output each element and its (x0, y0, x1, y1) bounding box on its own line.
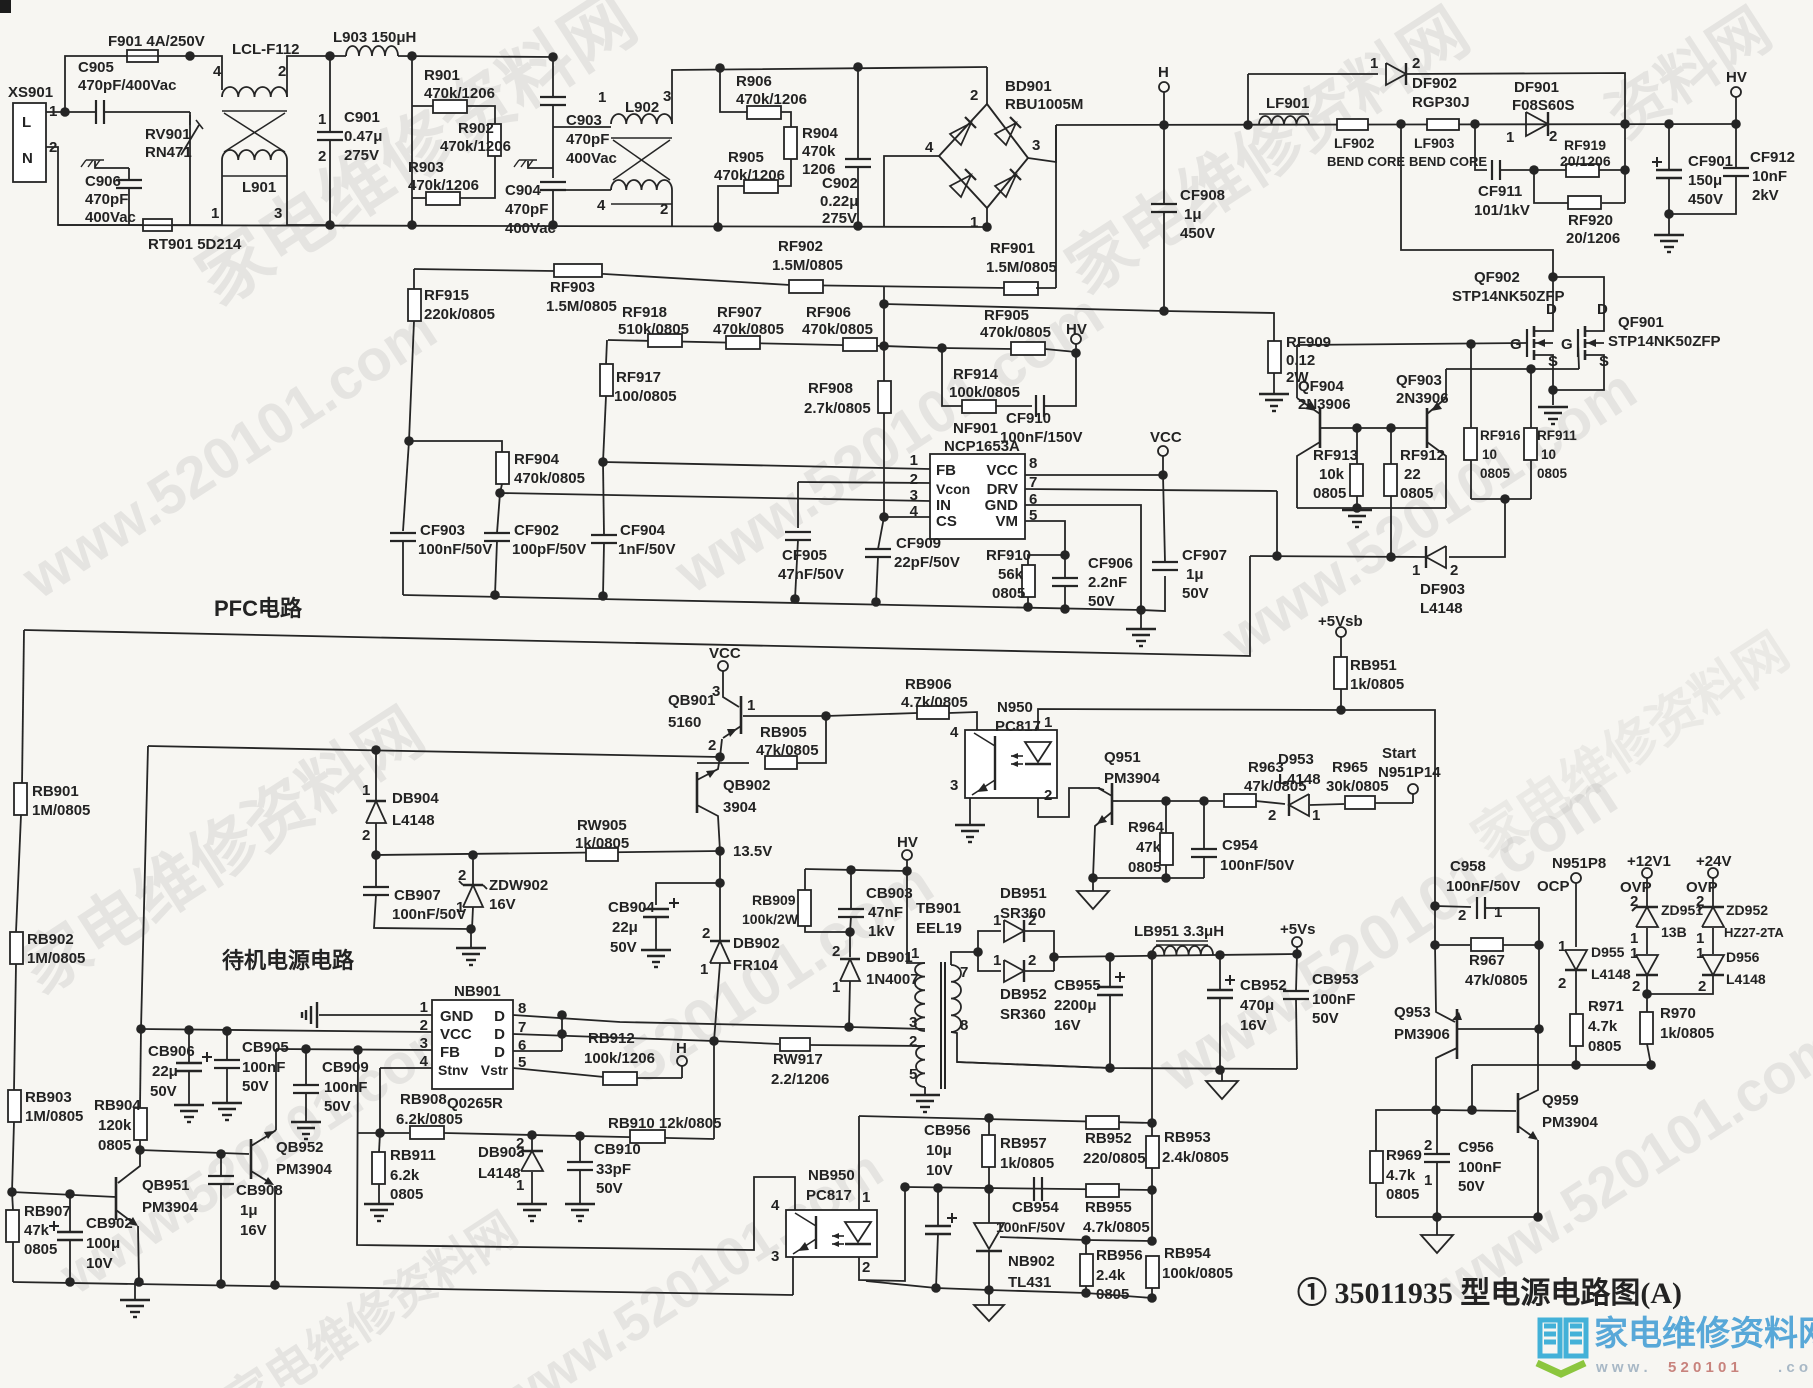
wire RB904 top (140, 1029, 141, 1108)
wire CF909 top (878, 517, 884, 549)
svg-text:NF901: NF901 (953, 420, 998, 437)
label DB903 v (478, 1165, 521, 1182)
svg-text:CB955: CB955 (1054, 977, 1101, 994)
svg-text:RT901 5D214: RT901 5D214 (148, 236, 242, 253)
wire DB902 bottom (714, 963, 720, 1041)
label H label top (1158, 64, 1169, 81)
label DB951 pin1 (993, 912, 1001, 929)
svg-text:RF916: RF916 (1480, 428, 1521, 443)
svg-text:1: 1 (911, 945, 919, 962)
label NB901 pin6 (518, 1037, 526, 1054)
junction n ret 1220 (1215, 1065, 1225, 1075)
label ZDW902 pin2 (458, 867, 466, 884)
wire RF917 bottom (603, 396, 606, 462)
svg-text:22μ: 22μ (612, 919, 638, 936)
label N950 pin1 (1044, 714, 1052, 731)
svg-text:RB954: RB954 (1164, 1245, 1211, 1262)
label VCC pfc label (1150, 429, 1182, 446)
svg-text:C902: C902 (822, 175, 858, 192)
resistor RF908 (878, 381, 891, 413)
svg-text:RF910: RF910 (986, 547, 1031, 564)
svg-text:NCP1653A: NCP1653A (944, 438, 1020, 455)
label CF906 v3 (1088, 593, 1115, 610)
svg-text:2kV: 2kV (1752, 187, 1779, 204)
svg-text:50V: 50V (610, 939, 637, 956)
label TB901 pin5 (909, 1066, 917, 1083)
junction n zdw gnd (466, 924, 476, 934)
svg-text:D: D (494, 1026, 505, 1043)
svg-text:OCP: OCP (1537, 878, 1570, 895)
label RB907 v2 (24, 1222, 50, 1239)
svg-text:RF911: RF911 (1537, 428, 1577, 443)
svg-text:20/1206: 20/1206 (1560, 153, 1611, 169)
wire FB pin row (276, 1049, 432, 1050)
label R905 v (714, 167, 785, 184)
transistor QB901 (720, 696, 741, 757)
label title (1297, 1277, 1682, 1310)
terminal Start term (1408, 784, 1418, 794)
svg-text:470pF: 470pF (566, 131, 609, 148)
wire TB901 pin8 lead (951, 1032, 1110, 1068)
svg-text:C956: C956 (1458, 1139, 1494, 1156)
junction n 748 DB904 (371, 745, 381, 755)
svg-text:QF902: QF902 (1474, 269, 1520, 286)
terminal HV mid (902, 850, 912, 860)
resistor RF913 (1350, 464, 1363, 496)
svg-text:0805: 0805 (1400, 485, 1433, 502)
logo book icon (1537, 1320, 1586, 1374)
label RF906 v (802, 321, 873, 338)
svg-text:LF901: LF901 (1266, 95, 1309, 112)
label DB951 (1000, 885, 1047, 902)
resistor R901 (433, 100, 467, 113)
diode DB901 (840, 959, 860, 981)
capacitor CB902 (49, 1221, 83, 1240)
label RB912 v (584, 1050, 655, 1067)
wire left column 4 (12, 1122, 14, 1192)
label RB951 v (1350, 676, 1404, 693)
junction n sec out R (1049, 952, 1059, 962)
connector XS901 (13, 103, 46, 182)
label R971 (1588, 998, 1624, 1015)
wire CB905 bot (226, 1068, 228, 1103)
svg-text:Q951: Q951 (1104, 749, 1141, 766)
resistor RB909 (798, 890, 811, 926)
svg-text:GND: GND (440, 1008, 474, 1025)
label RF912 (1400, 447, 1445, 464)
svg-text:① 35011935 型电源电路图(A): ① 35011935 型电源电路图(A) (1297, 1277, 1682, 1310)
label RF912 v2 (1404, 466, 1421, 483)
label R903 (408, 159, 444, 176)
svg-text:4.7k: 4.7k (1588, 1018, 1618, 1035)
junction n e row 1166 (1161, 873, 1171, 883)
label RB901 v (32, 802, 90, 819)
label RF918 v (618, 321, 689, 338)
svg-text:C901: C901 (344, 109, 380, 126)
label RF902 v (772, 257, 843, 274)
svg-text:1: 1 (970, 214, 978, 231)
resistor RF901 (1004, 282, 1038, 295)
svg-text:CF903: CF903 (420, 522, 465, 539)
svg-text:120k: 120k (98, 1117, 132, 1134)
svg-text:RBU1005M: RBU1005M (1005, 96, 1083, 113)
label CB908 (236, 1182, 283, 1199)
label CF907 v2 (1186, 566, 1204, 583)
wire CF911 right (1500, 169, 1566, 171)
label CF903 (420, 522, 465, 539)
label QF901 type (1608, 333, 1721, 350)
label D955 (1591, 944, 1625, 960)
junction n drain (1548, 272, 1558, 282)
resistor RB955 (1086, 1184, 1119, 1197)
label RF901 v (986, 259, 1057, 276)
wire vert x1625 (1624, 124, 1626, 203)
svg-text:RN471: RN471 (145, 144, 192, 161)
svg-text:470k/1206: 470k/1206 (424, 85, 495, 102)
svg-text:1: 1 (1412, 562, 1420, 579)
label CB910 v3 (596, 1180, 623, 1197)
label NB901 D7 (494, 1026, 505, 1043)
label DF901 pin2 (1549, 128, 1557, 145)
wire C954 bottom (1203, 857, 1205, 878)
diode DB952 (1004, 960, 1024, 982)
svg-text:3: 3 (771, 1248, 779, 1265)
transistor QB952 (251, 1130, 276, 1285)
label QF903 type (1396, 390, 1449, 407)
wire feedback long wire (24, 556, 1250, 656)
label RF909 v2 (1286, 352, 1315, 369)
junction n x412 rail (407, 220, 417, 230)
label DB951 pin2 (1028, 912, 1036, 929)
label RB909 (752, 892, 796, 908)
label C906 value3 (85, 209, 136, 226)
svg-text:470k/1206: 470k/1206 (440, 138, 511, 155)
wire row RF918 (608, 340, 942, 348)
wire Q953 emitter (1435, 945, 1455, 1022)
svg-text:D956: D956 (1726, 949, 1760, 965)
svg-text:150μ: 150μ (1688, 172, 1722, 189)
label L902 pin4 (597, 197, 606, 214)
svg-text:R903: R903 (408, 159, 444, 176)
wire XS901 pin1 to C905 (46, 111, 95, 113)
label CB909 v3 (324, 1098, 351, 1115)
label D956 pin1 (1696, 945, 1704, 962)
wire CF901 top (1668, 124, 1670, 170)
svg-text:QF904: QF904 (1298, 378, 1345, 395)
wire base row QB952 (140, 1150, 249, 1154)
svg-text:1M/0805: 1M/0805 (32, 802, 90, 819)
label NB901 VCC (440, 1026, 472, 1043)
svg-text:RF907: RF907 (717, 304, 762, 321)
capacitor CB907 (363, 887, 389, 895)
svg-text:SR360: SR360 (1000, 1006, 1046, 1023)
svg-text:16V: 16V (240, 1222, 267, 1239)
capacitor C904 (540, 182, 566, 190)
resistor R969 (1370, 1151, 1383, 1183)
label RV901 type (145, 144, 192, 161)
wire VCC pin row (141, 1029, 432, 1032)
inductor L902 top winding (611, 114, 672, 124)
wire left column 5 (12, 1192, 13, 1210)
junction n base 1391 (1386, 423, 1396, 433)
resistor RB952 (1086, 1116, 1119, 1129)
resistor RB908 (410, 1126, 444, 1139)
resistor RB903 (8, 1090, 21, 1122)
label +12V1 label (1627, 853, 1671, 870)
bridge diode D4 (995, 169, 1021, 197)
resistor RB904 (134, 1108, 147, 1140)
svg-text:LB951 3.3μH: LB951 3.3μH (1134, 923, 1224, 940)
wire RB909 bot (805, 926, 850, 932)
label QB901 pin2 (708, 737, 716, 754)
transistor QB951 (116, 1150, 140, 1282)
terminal HV right (1731, 87, 1741, 97)
wire DRV row (1025, 489, 1277, 491)
junction n out 1297 (1292, 949, 1302, 959)
svg-text:2: 2 (1424, 1137, 1432, 1154)
junction n rb904 b (135, 1145, 145, 1155)
wire N950 pin1 up (1038, 709, 1341, 730)
label RF905 v (980, 324, 1051, 341)
svg-text:RF919: RF919 (1564, 137, 1606, 153)
label CB908 v3 (240, 1222, 267, 1239)
svg-text:6.2k: 6.2k (390, 1167, 420, 1184)
junction n stnv (375, 1128, 385, 1138)
label CB956 v2 (926, 1142, 952, 1159)
label NF901 CS (936, 513, 957, 530)
wire CB902 bot (69, 1240, 71, 1282)
svg-text:4: 4 (771, 1197, 780, 1214)
label QF902 D (1546, 301, 1557, 318)
capacitor C954 (1191, 849, 1217, 857)
wire RF915 top (413, 269, 415, 289)
svg-text:R901: R901 (424, 67, 460, 84)
wire CB952 top (1219, 955, 1221, 990)
label C901 v3 (344, 147, 379, 164)
wire C958 right (1485, 908, 1539, 945)
label N951P8 label (1552, 855, 1606, 872)
svg-text:2N3906: 2N3906 (1396, 390, 1449, 407)
wire left col CF903 (403, 441, 409, 531)
wire CB903 bot (850, 917, 851, 932)
wire row D (866, 1281, 1152, 1298)
label CB955 v2 (1054, 997, 1097, 1014)
junction n e row 1093 (1088, 873, 1098, 883)
wire R967 right (1503, 944, 1539, 946)
label RB911 v2 (390, 1167, 420, 1184)
junction n left base (7, 1187, 17, 1197)
junction n tie 8 (557, 1010, 567, 1020)
svg-text:101/1kV: 101/1kV (1474, 202, 1530, 219)
svg-text:4: 4 (597, 197, 606, 214)
label RB954 (1164, 1245, 1211, 1262)
wire DF903 left row (1250, 556, 1426, 557)
label logo name (1594, 1315, 1813, 1353)
junction n q953 base (1534, 1024, 1544, 1034)
label Q951 type (1104, 770, 1161, 787)
wire RF901 right (1036, 287, 1056, 289)
label C956 v3 (1458, 1178, 1485, 1195)
svg-text:4: 4 (925, 139, 934, 156)
wire RF910 top lead (1028, 555, 1065, 565)
wire Q959 base row (1436, 1110, 1516, 1111)
junction n rail 795 (790, 594, 800, 604)
svg-text:100nF: 100nF (324, 1079, 367, 1096)
label NB901 FB (440, 1044, 460, 1061)
svg-text:L: L (22, 114, 31, 131)
zener ZDW902 (459, 881, 487, 907)
wire C901 top (329, 56, 331, 132)
ground gnd N950 (955, 825, 985, 842)
wire RW917 right (810, 1045, 925, 1046)
label CB906 (148, 1043, 195, 1060)
wire NB950 pin2 path (859, 1187, 905, 1281)
svg-text:1: 1 (910, 452, 918, 469)
svg-text:5160: 5160 (668, 714, 701, 731)
inductor L901 cross lines (224, 113, 285, 152)
wire row 855 (376, 851, 720, 855)
svg-text:CS: CS (936, 513, 957, 530)
label DB903 pin1 (516, 1177, 524, 1194)
wire CS vertical (883, 286, 885, 517)
label C956 (1458, 1139, 1494, 1156)
label R904 (802, 125, 839, 142)
svg-text:F08S60S: F08S60S (1512, 97, 1575, 114)
wire R965 right (1375, 802, 1413, 804)
label CF904 (620, 522, 666, 539)
capacitor C906 (116, 180, 142, 188)
label TB901 pin1 (911, 945, 919, 962)
junction n r967 R (1534, 940, 1544, 950)
diode DF902 (1386, 63, 1406, 85)
junction C901 top node (325, 51, 335, 61)
svg-text:+12V1: +12V1 (1627, 853, 1671, 870)
label pin L (22, 114, 31, 131)
svg-text:1: 1 (456, 899, 464, 916)
svg-text:50V: 50V (1312, 1010, 1339, 1027)
ground gnd QF902 (1538, 407, 1568, 424)
label QB902 type (723, 799, 757, 816)
label R965 (1332, 759, 1368, 776)
junction n CS (879, 512, 889, 522)
wire VCC stub (1162, 456, 1164, 475)
svg-text:1.5M/0805: 1.5M/0805 (772, 257, 843, 274)
svg-text:RGP30J: RGP30J (1412, 94, 1470, 111)
label R963 v (1244, 778, 1307, 795)
label CF906 v2 (1088, 574, 1127, 591)
label RF919 (1564, 137, 1606, 153)
label R970 (1660, 1005, 1696, 1022)
svg-text:0805: 0805 (1480, 466, 1511, 481)
wire N950 pin2 out (1038, 788, 1100, 817)
svg-text:0805: 0805 (992, 585, 1025, 602)
resistor RB910 (630, 1130, 665, 1143)
wire CF902 top (497, 493, 500, 533)
svg-text:NB901: NB901 (454, 983, 501, 1000)
svg-text:10: 10 (1482, 447, 1497, 462)
label RF904 v (514, 470, 585, 487)
svg-text:RB952: RB952 (1085, 1130, 1132, 1147)
label CB907 (394, 887, 441, 904)
svg-text:1μ: 1μ (1184, 206, 1202, 223)
label NF901 pin4 (910, 503, 919, 520)
svg-text:470k/1206: 470k/1206 (714, 167, 785, 184)
svg-text:RV901: RV901 (145, 126, 191, 143)
svg-text:2: 2 (1698, 978, 1706, 995)
label CB952 (1240, 977, 1287, 994)
label LF903 (1414, 135, 1455, 151)
wire HV stub (1075, 344, 1077, 353)
svg-text:1M/0805: 1M/0805 (27, 950, 85, 967)
wire CF906 bottom (1064, 586, 1066, 609)
junction n main 1401 (1396, 119, 1406, 129)
wire RB956 top (1085, 1240, 1087, 1254)
ground gnd Q959 (1421, 1235, 1453, 1253)
label DF903 pin2 (1450, 562, 1458, 579)
svg-text:GND: GND (985, 497, 1019, 514)
label DF902 pin1 (1370, 55, 1378, 72)
wire row 748 (148, 746, 720, 757)
svg-text:L901: L901 (242, 179, 276, 196)
resistor R965 (1345, 796, 1375, 809)
svg-text:NB902: NB902 (1008, 1253, 1055, 1270)
label TB901 pin7 (960, 964, 968, 981)
label BD901 type (1005, 96, 1083, 113)
capacitor CF908 (1151, 204, 1177, 212)
junction n VM (1060, 550, 1070, 560)
wire CF908 top (1163, 125, 1165, 204)
wire RB904 bottom (139, 1140, 141, 1150)
junction n gate RF916 (1466, 339, 1476, 349)
resistor R967 (1471, 938, 1503, 951)
capacitor CB956 (925, 1213, 957, 1234)
wire AC bottom rail (58, 225, 987, 227)
wire CF908 bottom (1163, 212, 1165, 311)
junction n CF908 bottom (1159, 306, 1169, 316)
svg-text:Vcon: Vcon (936, 481, 970, 497)
label NB901 pin2 (420, 1017, 428, 1034)
label C956 pin1 (1424, 1172, 1432, 1189)
wire main H line (1056, 124, 1736, 125)
svg-text:3: 3 (950, 777, 958, 794)
inductor L901 bottom winding (222, 150, 287, 160)
label CF905 v (778, 566, 844, 583)
wire Stnv row (380, 1067, 432, 1069)
ground gnd return (1206, 1081, 1238, 1099)
label C902 (822, 175, 858, 192)
junction n row 580 (575, 1131, 585, 1141)
svg-text:470μ: 470μ (1240, 997, 1274, 1014)
svg-text:G: G (1561, 336, 1573, 353)
wire R906 right (781, 112, 791, 127)
label QB901 type (668, 714, 701, 731)
label QF902 S (1548, 353, 1558, 370)
label RF906 (806, 304, 851, 321)
wire D955 bottom (1575, 971, 1577, 1014)
wire C956 top (1436, 1110, 1438, 1154)
label CF906 (1088, 555, 1133, 572)
svg-text:100nF: 100nF (242, 1059, 285, 1076)
ground gnd CB906 (174, 1105, 204, 1122)
svg-text:2: 2 (1630, 893, 1638, 910)
wire QF902 gate row (1297, 343, 1527, 345)
label C904 v2 (505, 201, 548, 218)
svg-text:C904: C904 (505, 182, 542, 199)
resistor RB905 (765, 756, 797, 769)
svg-text:FR104: FR104 (733, 957, 779, 974)
svg-text:RB957: RB957 (1000, 1135, 1047, 1152)
label RB957 (1000, 1135, 1047, 1152)
